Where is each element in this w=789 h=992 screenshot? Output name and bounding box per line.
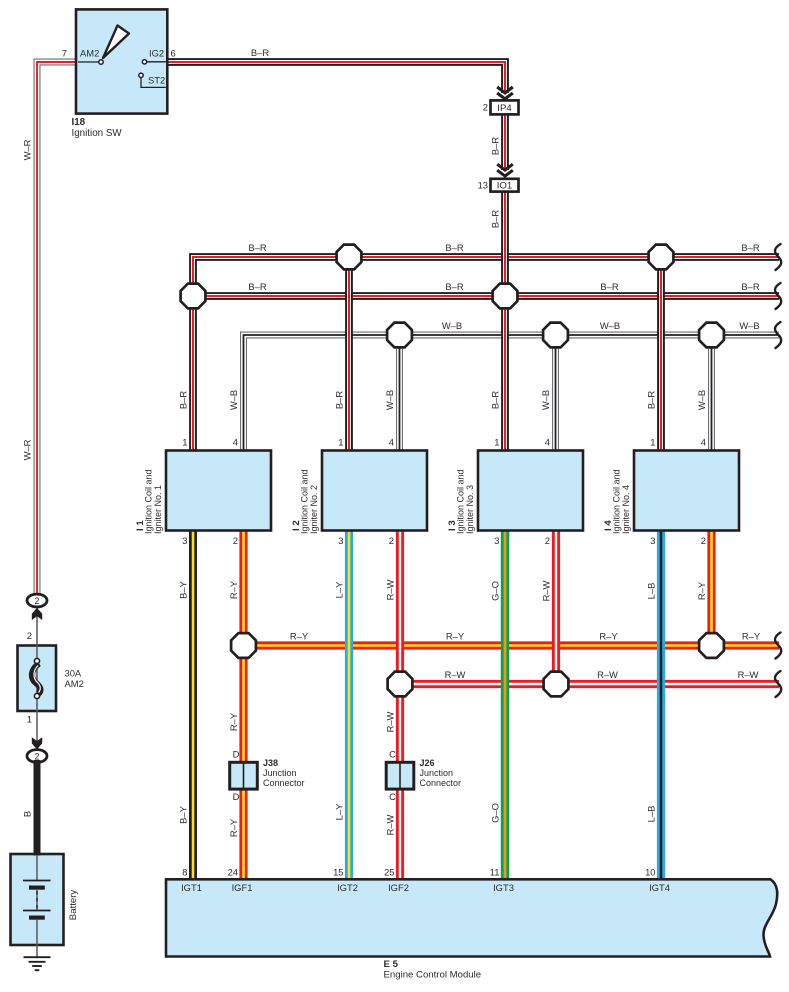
svg-text:G–O: G–O — [490, 581, 501, 601]
svg-text:R–W: R–W — [385, 711, 396, 732]
svg-text:2: 2 — [545, 535, 550, 546]
svg-text:B–R: B–R — [490, 210, 501, 228]
svg-text:W–B: W–B — [540, 390, 551, 410]
svg-text:2: 2 — [27, 630, 32, 641]
svg-text:R–Y: R–Y — [742, 631, 761, 642]
svg-text:R–Y: R–Y — [228, 818, 239, 837]
svg-text:ST2: ST2 — [148, 75, 165, 86]
svg-text:R–W: R–W — [445, 669, 466, 680]
svg-text:W–R: W–R — [22, 439, 33, 460]
svg-text:L–Y: L–Y — [334, 581, 345, 598]
svg-text:4: 4 — [233, 437, 238, 448]
svg-text:W–B: W–B — [739, 320, 759, 331]
svg-text:R–W: R–W — [738, 669, 759, 680]
svg-text:24: 24 — [228, 867, 238, 878]
svg-text:R–W: R–W — [385, 579, 396, 600]
svg-text:B–Y: B–Y — [178, 805, 189, 823]
svg-text:1: 1 — [494, 437, 499, 448]
svg-text:25: 25 — [384, 867, 394, 878]
svg-text:L–B: L–B — [646, 806, 657, 823]
svg-text:B–R: B–R — [646, 391, 657, 409]
svg-text:IGF1: IGF1 — [232, 882, 253, 893]
svg-text:C: C — [389, 791, 396, 802]
svg-text:Igniter No. 2: Igniter No. 2 — [309, 485, 319, 534]
svg-text:10: 10 — [645, 867, 655, 878]
svg-text:2: 2 — [483, 102, 488, 113]
svg-text:B–R: B–R — [248, 281, 266, 292]
svg-text:B–R: B–R — [334, 391, 345, 409]
svg-text:IG2: IG2 — [149, 48, 164, 59]
svg-text:Igniter No. 4: Igniter No. 4 — [621, 485, 631, 534]
svg-text:B–Y: B–Y — [178, 580, 189, 598]
svg-text:IP4: IP4 — [497, 103, 512, 114]
svg-text:4: 4 — [545, 437, 550, 448]
svg-text:3: 3 — [182, 535, 187, 546]
svg-text:W–B: W–B — [384, 390, 395, 410]
svg-text:AM2: AM2 — [80, 48, 99, 59]
svg-text:8: 8 — [182, 867, 187, 878]
svg-text:Igniter No. 3: Igniter No. 3 — [465, 485, 475, 534]
svg-text:B–R: B–R — [741, 242, 759, 253]
svg-text:B–R: B–R — [445, 242, 463, 253]
svg-text:13: 13 — [478, 180, 488, 191]
svg-text:1: 1 — [650, 437, 655, 448]
svg-text:IGF2: IGF2 — [388, 882, 409, 893]
svg-text:3: 3 — [650, 535, 655, 546]
svg-text:4: 4 — [701, 437, 706, 448]
svg-text:1: 1 — [338, 437, 343, 448]
svg-text:Connector: Connector — [263, 778, 305, 788]
svg-text:Engine Control Module: Engine Control Module — [384, 970, 482, 981]
svg-text:R–W: R–W — [597, 669, 618, 680]
svg-text:B–R: B–R — [251, 47, 269, 58]
svg-text:3: 3 — [338, 535, 343, 546]
svg-text:B–R: B–R — [178, 391, 189, 409]
svg-text:Igniter No. 1: Igniter No. 1 — [153, 485, 163, 534]
svg-text:D: D — [233, 749, 240, 760]
svg-text:2: 2 — [34, 751, 39, 761]
svg-text:L–B: L–B — [646, 583, 657, 600]
svg-text:IGT4: IGT4 — [649, 882, 670, 893]
svg-text:6: 6 — [171, 48, 176, 59]
svg-text:2: 2 — [389, 535, 394, 546]
svg-text:7: 7 — [62, 48, 67, 59]
svg-text:2: 2 — [701, 535, 706, 546]
svg-text:Ignition SW: Ignition SW — [72, 128, 123, 139]
svg-text:2: 2 — [233, 535, 238, 546]
svg-text:D: D — [233, 791, 240, 802]
svg-text:J26: J26 — [420, 758, 435, 768]
svg-text:B–R: B–R — [490, 137, 501, 155]
svg-text:B–R: B–R — [445, 281, 463, 292]
svg-text:E 5: E 5 — [384, 959, 399, 970]
svg-text:R–Y: R–Y — [290, 631, 309, 642]
svg-text:R–Y: R–Y — [228, 712, 239, 731]
svg-text:W–B: W–B — [442, 320, 462, 331]
svg-text:IGT3: IGT3 — [493, 882, 514, 893]
svg-text:J38: J38 — [263, 758, 278, 768]
svg-text:1: 1 — [182, 437, 187, 448]
svg-text:R–Y: R–Y — [446, 631, 465, 642]
svg-text:B–R: B–R — [600, 281, 618, 292]
svg-text:L–Y: L–Y — [334, 803, 345, 820]
svg-text:Connector: Connector — [420, 778, 462, 788]
svg-text:11: 11 — [490, 867, 500, 878]
svg-text:Ignition Coil and: Ignition Coil and — [144, 469, 154, 534]
svg-text:IGT2: IGT2 — [337, 882, 358, 893]
svg-text:B: B — [22, 811, 33, 817]
svg-text:B–R: B–R — [490, 391, 501, 409]
svg-text:W–B: W–B — [228, 390, 239, 410]
svg-text:Ignition Coil and: Ignition Coil and — [300, 469, 310, 534]
svg-text:Battery: Battery — [68, 890, 79, 921]
svg-text:R–Y: R–Y — [696, 581, 707, 600]
svg-text:3: 3 — [494, 535, 499, 546]
svg-text:IGT1: IGT1 — [181, 882, 202, 893]
svg-text:Junction: Junction — [263, 768, 297, 778]
svg-text:IO1: IO1 — [497, 181, 512, 192]
svg-text:2: 2 — [34, 596, 39, 606]
svg-text:R–Y: R–Y — [228, 580, 239, 599]
svg-text:W–R: W–R — [22, 139, 33, 160]
svg-text:4: 4 — [389, 437, 394, 448]
svg-text:Ignition Coil and: Ignition Coil and — [456, 469, 466, 534]
svg-text:C: C — [389, 749, 396, 760]
svg-text:B–R: B–R — [248, 242, 266, 253]
svg-text:R–Y: R–Y — [599, 631, 618, 642]
svg-text:Junction: Junction — [420, 768, 454, 778]
svg-text:R–W: R–W — [385, 814, 396, 835]
svg-text:1: 1 — [27, 713, 32, 724]
svg-text:W–B: W–B — [696, 390, 707, 410]
svg-text:W–B: W–B — [600, 320, 620, 331]
svg-text:I18: I18 — [72, 117, 86, 128]
svg-text:R–W: R–W — [541, 580, 552, 601]
svg-text:15: 15 — [333, 867, 343, 878]
svg-text:Ignition Coil and: Ignition Coil and — [612, 469, 622, 534]
svg-text:G–O: G–O — [490, 803, 501, 823]
svg-text:B–R: B–R — [741, 281, 759, 292]
svg-text:AM2: AM2 — [65, 678, 84, 689]
